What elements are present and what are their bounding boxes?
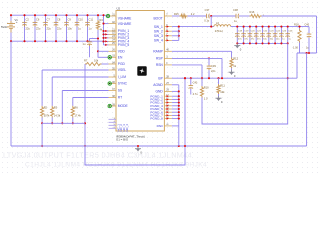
pin 10 PGND_4 <box>164 105 172 107</box>
svg-text:G1 = B/G: G1 = B/G <box>116 138 129 142</box>
svg-text:R12: R12 <box>233 57 238 61</box>
svg-text:R15: R15 <box>174 13 179 16</box>
svg-text:1.00: 1.00 <box>293 47 298 50</box>
wire C40 top <box>308 27 310 31</box>
wire resistor bottom rail <box>42 122 85 124</box>
wire R6 bottom <box>72 118 74 124</box>
junction PGND bus <box>178 98 180 100</box>
capacitor C41 <box>189 85 194 89</box>
wire PVIN pin link <box>104 37 109 39</box>
svg-text:C38: C38 <box>233 8 238 12</box>
wire SW node row <box>172 26 214 28</box>
svg-text:C9: C9 <box>68 18 72 22</box>
junction C25 top <box>280 26 282 28</box>
junction loop BP <box>184 77 186 79</box>
junction C26 top <box>287 26 289 28</box>
pin 6 NC_4 <box>109 127 117 129</box>
wire C12 top lead <box>89 39 91 42</box>
wire branch C6 <box>34 15 36 41</box>
svg-text:R4: R4 <box>100 18 104 22</box>
svg-text:BOOT: BOOT <box>153 17 162 21</box>
svg-text:C7: C7 <box>47 18 51 22</box>
svg-text:C2: C2 <box>26 18 30 22</box>
junction C22 bottom <box>261 42 263 44</box>
capacitor C2 <box>22 22 27 27</box>
pin 18 PGND_6 <box>164 111 172 113</box>
wire VSEL down <box>41 70 43 106</box>
wire rail drop left <box>41 123 43 146</box>
wire RAMP row <box>172 50 232 52</box>
capacitor C8 <box>54 22 59 27</box>
junction C12 top <box>97 37 99 39</box>
wire branch C21 <box>255 27 257 44</box>
wire to EN pin <box>98 56 108 58</box>
svg-text:NC_4: NC_4 <box>125 124 129 132</box>
wire branch C22 <box>262 27 264 44</box>
resistor R12 <box>230 58 233 69</box>
pin 33 EN <box>109 56 117 58</box>
wire rail jog <box>105 14 107 17</box>
junction gnd rail <box>137 145 139 147</box>
junction V1 top <box>10 14 12 16</box>
junction C7 bottom <box>44 40 46 42</box>
junction PVIN bus <box>102 40 104 42</box>
wire PVIN pin link <box>104 33 109 35</box>
wire R4 down <box>97 30 99 57</box>
junction C23 bottom <box>268 42 270 44</box>
wire C41 bottom <box>190 89 192 95</box>
pin 23 PVIN_3 <box>109 37 117 39</box>
junction C18 bottom <box>236 42 238 44</box>
junction C9 bottom <box>65 40 67 42</box>
wire branch C24 <box>274 27 276 44</box>
wire SW pin to bus <box>172 39 179 41</box>
wire branch C23 <box>268 27 270 44</box>
pin 32 VSHARE <box>109 23 117 25</box>
svg-text:PGD: PGD <box>118 62 126 66</box>
svg-text:C10: C10 <box>78 18 83 22</box>
svg-text:0.1u: 0.1u <box>204 19 210 23</box>
junction C24 top <box>274 26 276 28</box>
wire branch C9 <box>66 15 68 41</box>
resistor R11 <box>217 84 220 94</box>
junction PGND bus <box>178 114 180 116</box>
resistor R7 <box>85 62 102 65</box>
wire top row right drop <box>316 16 318 53</box>
wire BP row <box>172 77 297 79</box>
junction C21 bottom <box>255 42 257 44</box>
wire PGD stub ext <box>102 63 109 65</box>
svg-text:SW_3: SW_3 <box>154 34 163 38</box>
svg-text:22n: 22n <box>211 69 216 73</box>
wire BP to sense row <box>296 53 298 78</box>
junction PGND bus <box>178 111 180 113</box>
junction BP row <box>184 77 186 79</box>
junction C9 top <box>65 14 67 16</box>
wire PVIN pin link <box>104 40 109 42</box>
wire C41 top <box>190 78 192 81</box>
pin 17 PGND_7 <box>164 114 172 116</box>
wire R18 top <box>299 27 301 29</box>
junction SS rail <box>61 122 63 124</box>
wire BOOT row <box>172 15 180 17</box>
junction SW bus <box>178 26 180 28</box>
junction C18 top <box>236 26 238 28</box>
wire V1 top lead <box>10 15 12 21</box>
pin 36 SYNC <box>109 83 117 85</box>
svg-text:10k: 10k <box>220 90 225 94</box>
svg-text:R6: R6 <box>74 105 78 109</box>
svg-text:I_LIM: I_LIM <box>118 75 127 79</box>
wire RSP row <box>172 57 222 59</box>
pin 26 VDD <box>109 50 117 52</box>
wire C40 upper <box>308 31 310 33</box>
svg-text:C39: C39 <box>211 64 216 68</box>
wire output bottom rail <box>237 42 287 44</box>
ground output bank <box>234 43 240 48</box>
junction C25 bottom <box>280 42 282 44</box>
svg-text:R2: R2 <box>44 105 48 109</box>
wire branch C26 <box>287 27 289 44</box>
svg-text:VDD: VDD <box>118 50 126 54</box>
svg-text:VSEL: VSEL <box>118 68 127 72</box>
wire branch C11 <box>87 15 89 41</box>
junction C10 bottom <box>76 40 78 42</box>
svg-text:RSP: RSP <box>156 57 164 61</box>
wire input bottom rail <box>11 40 104 42</box>
capacitor C10 <box>75 22 80 27</box>
junction rail drop <box>41 145 43 147</box>
wire AGND GND PGND bus <box>172 84 179 86</box>
pin 27 AGND <box>164 84 172 86</box>
junction C2 top <box>23 14 25 16</box>
junction C11 bottom <box>86 40 88 42</box>
svg-text:SW_2: SW_2 <box>154 29 163 33</box>
junction pgnd rail <box>178 145 180 147</box>
pin 41 PAD <box>164 125 172 127</box>
svg-text:VSHARE: VSHARE <box>118 22 132 26</box>
wire R12 top <box>231 51 233 57</box>
svg-text:C11: C11 <box>89 18 94 22</box>
capacitor C24 <box>273 33 278 38</box>
wire PGND link <box>172 102 179 104</box>
junction VSHARE2 bus <box>102 23 104 25</box>
resistor R4 <box>96 20 99 30</box>
pin 7 SW_3 <box>164 35 172 37</box>
junction V1 bottom <box>10 40 12 42</box>
wire RSN row <box>172 64 202 66</box>
pin 5 I_LIM <box>109 76 117 78</box>
wire C41 upper <box>190 82 192 85</box>
wire R2 bottom <box>41 118 43 124</box>
pin 31 VSHARE <box>109 15 117 17</box>
wire C12 bottom <box>89 46 91 57</box>
junction BP row <box>221 77 223 79</box>
svg-text:PGND_8: PGND_8 <box>150 117 163 121</box>
junction R18 vout <box>298 26 300 28</box>
junction C20 bottom <box>249 42 251 44</box>
wire sense bottom row <box>297 52 317 54</box>
svg-text:R18: R18 <box>294 24 299 27</box>
pin 24 PVIN_4 <box>109 40 117 42</box>
resistor R6 <box>71 106 74 118</box>
junction right drop <box>306 52 308 54</box>
junction SW bus <box>178 30 180 32</box>
resistor R16 <box>250 14 262 17</box>
wire C41 low <box>190 88 192 90</box>
wire branch C19 <box>243 27 245 44</box>
junction C22 top <box>261 26 263 28</box>
svg-text:V1: V1 <box>15 18 19 22</box>
svg-text:PAD: PAD <box>157 124 164 128</box>
pin 35 VSEL <box>109 69 117 71</box>
junction PGND bus <box>178 102 180 104</box>
resistor R18 <box>298 29 301 43</box>
wire C39 bottom <box>208 70 210 78</box>
svg-text:LTVGJ4 0UTPUT F1LTER5 0JHB4 C3: LTVGJ4 0UTPUT F1LTER5 0JHB4 C3HJL4 1JLNM… <box>3 151 192 160</box>
junction cross rail2 <box>84 145 86 147</box>
junction PVIN bus <box>102 37 104 39</box>
wire branch C18 <box>236 27 238 44</box>
pin 6 SW_4 <box>164 39 172 41</box>
wire R18 bottom <box>299 43 301 54</box>
capacitor C21 <box>254 33 259 38</box>
wire R3 bottom <box>51 118 53 124</box>
svg-text:PVIN_5: PVIN_5 <box>118 43 130 47</box>
capacitor C23 <box>267 33 272 38</box>
wire C12 top <box>90 38 99 40</box>
ground R11 <box>216 96 222 101</box>
wire branch C8 <box>55 15 57 41</box>
wire GND link <box>172 90 179 92</box>
wire PGND link <box>172 105 179 107</box>
pin 29 GND <box>164 90 172 92</box>
junction R2 rail <box>41 122 43 124</box>
junction BP row <box>201 77 203 79</box>
junction C24 bottom <box>274 42 276 44</box>
wire ILIM row <box>52 76 108 78</box>
wire right return down <box>306 53 308 146</box>
wire R16 right <box>262 15 317 17</box>
junction R3 rail <box>51 122 53 124</box>
pin 25 PVIN_5 <box>109 44 117 46</box>
svg-text:RAMP: RAMP <box>153 50 163 54</box>
wire PGND link <box>172 118 179 120</box>
junction BP row <box>190 77 192 79</box>
wire C39 top <box>208 58 210 65</box>
svg-text:R10: R10 <box>204 86 209 90</box>
pin 1 RSN <box>164 64 172 66</box>
junction C23 top <box>268 26 270 28</box>
pin 19 PGND_5 <box>164 108 172 110</box>
svg-text:VSHARE: VSHARE <box>118 17 132 21</box>
capacitor C20 <box>248 33 253 38</box>
junction C8 top <box>55 14 57 16</box>
capacitor C38 <box>236 14 239 19</box>
svg-text:R3: R3 <box>54 105 58 109</box>
wire R15 to C37 <box>188 15 207 17</box>
wire C40 bottom <box>308 40 310 53</box>
svg-text:R11: R11 <box>220 84 225 88</box>
IC U2 logo <box>137 66 146 75</box>
wire boot cap to SW <box>210 16 212 27</box>
node VSHARE rail end <box>106 14 109 17</box>
pin 3 RSP <box>164 57 172 59</box>
pin 28 BP <box>164 77 172 79</box>
junction C26 bottom <box>287 42 289 44</box>
junction C20 top <box>249 26 251 28</box>
capacitor C7 <box>43 22 48 27</box>
junction R4 top <box>97 14 99 16</box>
resistor R15 <box>180 14 188 17</box>
capacitor C12 <box>87 41 92 46</box>
capacitor C26 <box>285 33 290 38</box>
junction boot at SW <box>210 26 212 28</box>
svg-text:C40: C40 <box>305 24 310 27</box>
wire branch C20 <box>249 27 251 44</box>
pin 7 BOOT <box>164 15 172 17</box>
svg-text:C41: C41 <box>193 80 198 84</box>
svg-text:22u: 22u <box>36 27 41 31</box>
voltage source V1 5Vdc <box>7 21 15 33</box>
wire RT down <box>72 98 74 106</box>
inductor L2 270nH <box>214 25 231 27</box>
wire SS down <box>61 91 63 124</box>
junction boot-sw tap <box>210 15 212 17</box>
junction cross rail1 <box>84 122 86 124</box>
wire VIN top rail <box>11 14 106 16</box>
pin 39 MODE <box>109 105 117 107</box>
junction loop right <box>184 145 186 147</box>
junction C19 bottom <box>243 42 245 44</box>
junction VDD branch <box>97 50 99 52</box>
pin 13 PGND_1 <box>164 95 172 97</box>
wire PGND link <box>172 95 179 97</box>
svg-text:MODE: MODE <box>118 104 129 108</box>
svg-text:SW_1: SW_1 <box>154 25 163 29</box>
svg-text:22u: 22u <box>47 27 52 31</box>
svg-text:C6: C6 <box>36 18 40 22</box>
capacitor C40 <box>307 33 312 38</box>
wire branch C10 <box>76 15 78 41</box>
svg-text:GND: GND <box>155 90 163 94</box>
junction PVIN bus <box>102 33 104 35</box>
wire PGND link <box>172 108 179 110</box>
pin 12 PGND_2 <box>164 98 172 100</box>
junction C21 top <box>255 26 257 28</box>
wire C40 lower <box>308 38 310 40</box>
wire PGND link <box>172 111 179 113</box>
wire ground U loop <box>85 78 185 165</box>
junction C6 top <box>34 14 36 16</box>
wire R10 top <box>201 78 203 86</box>
wire long ground rail <box>11 145 307 147</box>
wire SW pin to bus <box>172 35 179 37</box>
wire PGND link <box>172 98 179 100</box>
wire R11 top <box>218 78 220 84</box>
capacitor C19 <box>241 33 246 38</box>
wire C38 to R16 <box>239 15 250 17</box>
svg-text:5Vdc: 5Vdc <box>1 25 8 29</box>
wire PAD link <box>172 125 179 127</box>
svg-text:14.3k: 14.3k <box>54 114 61 118</box>
pin 3 NC_1 <box>109 118 117 120</box>
svg-text:1.0: 1.0 <box>204 97 208 101</box>
junction sense row <box>308 52 310 54</box>
svg-text:U2: U2 <box>117 7 121 11</box>
IC U2 IR3894 body <box>116 11 164 132</box>
wire V1 bottom lead <box>10 33 12 42</box>
svg-text:507k: 507k <box>44 114 50 118</box>
junction C11 top <box>86 14 88 16</box>
wire PGND link <box>172 114 179 116</box>
svg-text:2.2: 2.2 <box>191 12 195 16</box>
junction C7 top <box>44 14 46 16</box>
junction loop BP row <box>287 77 289 79</box>
wire ground loop inner <box>202 43 288 124</box>
svg-text:22u: 22u <box>26 27 31 31</box>
svg-text:RSN: RSN <box>156 63 164 67</box>
junction C19 top <box>243 26 245 28</box>
svg-text:10u: 10u <box>68 27 73 31</box>
wire to VDD pin <box>98 50 109 52</box>
capacitor C6 <box>33 22 38 27</box>
wire VOUT rail <box>231 26 309 28</box>
pin 4 NC_2 <box>109 121 117 123</box>
junction C2 bottom <box>23 40 25 42</box>
capacitor C11 <box>85 22 90 27</box>
junction BP row <box>217 77 219 79</box>
junction bus top rail <box>102 14 104 16</box>
svg-text:R7: R7 <box>84 58 88 62</box>
capacitor C25 <box>279 33 284 38</box>
resistor R10 <box>200 86 203 98</box>
junction PGND bus <box>178 108 180 110</box>
svg-text:10k: 10k <box>94 58 99 62</box>
pin 40 RAMP <box>164 50 172 52</box>
ground 0 main <box>135 147 141 152</box>
junction ramp cap <box>208 57 210 59</box>
svg-text:R16: R16 <box>250 10 255 14</box>
junction C6 bottom <box>34 40 36 42</box>
pin 21 PVIN_1 <box>109 30 117 32</box>
wire SW bus <box>178 27 180 41</box>
svg-text:17.4k: 17.4k <box>74 114 81 118</box>
pin 5 NC_3 <box>109 124 117 126</box>
wire SS row <box>62 90 108 92</box>
svg-text:22u: 22u <box>57 27 62 31</box>
wire branch C7 <box>45 15 47 41</box>
wire branch C25 <box>280 27 282 44</box>
pin 16 PGND_8 <box>164 118 172 120</box>
resistor R2 <box>41 106 44 118</box>
wire VSHARE2 stub ext <box>104 23 109 25</box>
capacitor C22 <box>260 33 265 38</box>
wire PVIN bus <box>103 15 105 45</box>
wire ILIM down <box>51 77 53 106</box>
capacitor C9 <box>64 22 69 27</box>
svg-text:EN: EN <box>118 56 123 60</box>
wire SW pin to bus <box>172 30 179 32</box>
wire PVIN pin link <box>104 30 109 32</box>
junction PGND bus <box>178 95 180 97</box>
wire VSEL row <box>42 69 108 71</box>
ground R12 <box>229 70 235 75</box>
junction SW bus <box>178 35 180 37</box>
junction BP row <box>208 77 210 79</box>
resistor R3 <box>51 106 54 118</box>
svg-text:C37: C37 <box>205 8 210 12</box>
